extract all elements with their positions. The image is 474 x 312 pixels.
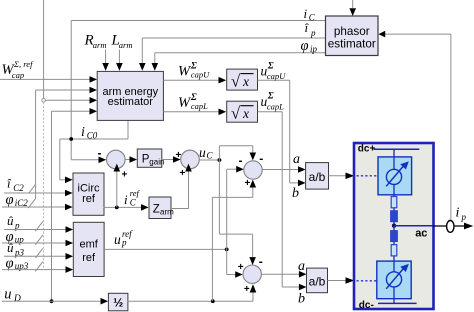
wire L_arm into estimator top [116,50,123,71]
wire u_C net with junction [199,146,256,265]
wire u_p3 into emf ref [4,248,73,259]
wire W_cap_ref input [0,76,97,83]
svg-text:ref: ref [82,193,96,205]
label W_capL_sigma [178,93,208,111]
wire u_capU to divider b [258,80,306,186]
wire phi_ip net to phasor estimator [152,53,326,71]
dotted wire into lower cell [357,280,377,282]
block sqrt upper [227,69,258,90]
wire phi_up3 into emf ref [2,262,73,273]
submodule lower light [391,242,397,262]
wire input into phasor estimator top [349,0,356,16]
wire S4 output to divider a [261,271,306,278]
svg-text:arm: arm [93,40,107,50]
svg-text:D: D [13,294,21,304]
wire stem dc+ to upper cell [393,149,395,157]
svg-text:i: i [81,125,85,140]
svg-text:C: C [207,151,214,161]
label u_p3_hat [7,240,25,258]
label W_cap_sigma_ref [2,59,35,80]
svg-text:a: a [298,259,305,274]
svg-text:√: √ [231,103,241,122]
svg-text:W: W [178,95,192,111]
block phasor estimator [326,16,379,56]
block arm energy estimator [97,71,163,120]
svg-text:ac: ac [415,228,427,240]
converter phase-leg box [354,143,434,309]
svg-text:+: + [180,168,186,179]
lower arm cell U2 [377,261,411,299]
svg-text:C2: C2 [13,183,24,193]
svg-text:u: u [199,145,206,160]
wire iCirc ref output i_C_ref [104,164,149,211]
label i_p_hat at phasor input [305,20,317,38]
svg-text:Σ: Σ [267,61,274,71]
svg-text:u: u [4,286,11,302]
svg-text:b: b [298,292,305,307]
svg-text:phasor: phasor [334,25,370,38]
label u_p_hat [7,213,20,231]
svg-text:capL: capL [191,101,208,111]
block half gain [108,293,128,311]
ac output wire [394,223,473,230]
label R_arm [84,33,107,50]
svg-text:+: + [122,169,128,180]
wire i_p_hat net to phasor estimator [139,38,326,71]
label W_capU_sigma [178,61,210,79]
wire i_C net to phasor estimator [71,21,325,164]
block P_gain [137,149,164,167]
ac node junction [392,224,396,228]
label phi_up [6,229,25,245]
submodule lower dark [391,226,398,242]
submodule upper dark [391,208,398,226]
svg-text:-: - [98,146,102,160]
summing junction S4 lower arm [238,255,263,295]
wire i_C0 net [60,121,128,184]
wire W_capL to sqrt block [163,109,226,116]
block Z_arm [149,197,174,219]
svg-text:x: x [242,74,249,89]
wire W_capU to sqrt block [163,77,226,84]
node on vertical bus with open circle [42,0,97,270]
svg-text:arm: arm [119,40,133,50]
svg-text:emf: emf [80,238,99,250]
svg-text:-: - [239,154,243,168]
svg-text:-: - [259,255,263,269]
wire S1 to P_gain [125,156,137,163]
label phi_iC2 [6,192,29,208]
wire divider lower output to converter [328,277,355,284]
svg-text:estimator: estimator [328,37,376,50]
wire u_capL to divider b [258,112,307,290]
dotted wire into upper cell [357,175,378,177]
svg-text:φ: φ [6,192,14,208]
svg-text:u: u [114,232,121,247]
label u_C [199,145,214,161]
svg-text:capL: capL [267,101,284,111]
svg-text:½: ½ [113,296,123,310]
svg-text:p: p [121,238,127,248]
wire Z_arm output to S2 [171,164,192,209]
svg-text:ref: ref [130,188,141,198]
block divider a/b upper [306,163,329,190]
wire u_D riser to estimator input 4 [50,108,97,303]
svg-text:gain: gain [149,157,164,166]
wire emf ref output u_p_ref [104,166,244,278]
svg-text:i: i [456,206,460,221]
svg-text:p: p [310,28,316,38]
svg-text:a/b: a/b [309,274,326,288]
label phi_ip at phasor input [301,38,318,54]
svg-text:capU: capU [191,70,210,80]
label u_p_ref [114,229,133,248]
upper arm cell U1 [378,157,412,195]
wire phi_iC2 into iCirc ref [2,204,73,211]
svg-text:a: a [293,152,300,167]
svg-text:ref: ref [82,252,96,264]
svg-text:i: i [124,192,128,207]
label phi_up3 [6,256,29,272]
svg-text:estimator: estimator [108,96,154,108]
svg-text:p: p [461,212,467,222]
svg-text:-: - [259,151,263,165]
block iCirc ref [73,173,104,215]
svg-text:φ: φ [301,38,309,54]
label i_C_ref [124,188,141,208]
label i_C at phasor input [304,6,316,23]
submodule upper light [391,195,397,208]
svg-text:Σ, ref: Σ, ref [13,59,34,69]
svg-text:capU: capU [267,71,286,81]
wire u_D_half output net [127,180,256,304]
wire u_p into emf ref [4,222,73,233]
block sqrt lower [227,101,258,122]
svg-text:C: C [309,13,316,23]
dc+ bus wire [374,148,420,150]
svg-text:+: + [176,150,182,161]
summing junction S3 upper arm [239,151,264,189]
label u_D [4,286,21,304]
svg-text:√: √ [231,71,241,90]
label i_C2_hat [7,176,24,193]
wire S3 output to divider a [262,166,305,173]
svg-text:Z: Z [153,203,160,215]
wire R_arm into estimator top [102,50,109,71]
label L_arm [111,33,133,50]
svg-text:C: C [130,197,137,207]
wire P_gain to S2 [162,156,181,163]
wire u_D into half block [2,298,108,305]
wire phi_iC2 riser to estimator input 2 [28,87,97,208]
label u_capU_sigma [261,61,287,81]
svg-text:Σ: Σ [267,92,274,102]
svg-text:cap: cap [12,70,24,80]
label u_capL_sigma [261,92,285,112]
summing junction S2 [176,150,200,179]
wire phi_up into emf ref [2,235,73,246]
wire i_p feedback into phasor estimator right [378,31,451,221]
svg-text:b: b [292,186,299,201]
label i_p [456,206,467,223]
svg-text:+: + [238,262,244,273]
svg-text:a/b: a/b [309,170,326,184]
svg-text:i: i [304,6,308,21]
wire stem lower cell to dc- bus [393,299,395,304]
svg-text:x: x [242,106,249,121]
svg-text:dc+: dc+ [358,144,376,155]
svg-text:C0: C0 [87,131,98,141]
svg-text:ip: ip [310,44,318,54]
label i_C0 [81,125,98,141]
svg-text:û: û [7,213,14,228]
wire i_C2 into iCirc ref [4,185,73,197]
svg-text:+: + [244,284,250,295]
block divider a/b lower [307,268,328,293]
svg-text:û: û [7,240,14,255]
block emf ref [73,222,104,276]
svg-text:W: W [178,63,192,79]
svg-text:+: + [245,178,251,189]
current measurement ellipse i_p [447,221,454,233]
summing junction S1 [98,146,128,180]
svg-text:dc-: dc- [359,300,374,311]
wire divider upper output to converter [329,173,355,180]
dc- bus wire [378,302,417,304]
